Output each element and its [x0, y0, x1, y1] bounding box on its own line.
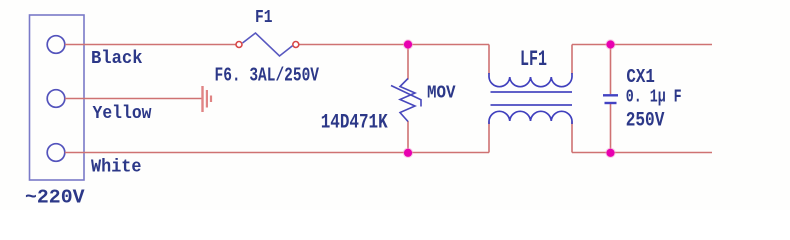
- svg-text:F1: F1: [255, 7, 273, 28]
- svg-text:LF1: LF1: [520, 47, 547, 72]
- svg-text:Yellow: Yellow: [93, 103, 152, 124]
- inductor LF1 common-mode choke: [489, 45, 572, 153]
- svg-text:14D471K: 14D471K: [321, 111, 388, 134]
- wire earth line: pin2 to ground: [65, 98, 202, 100]
- capacitor CX1 plates: [603, 95, 618, 103]
- varistor MOV body: [391, 79, 421, 122]
- node A junction dot top of MOV: [403, 39, 413, 49]
- varistor MOV vertical wire top: [407, 45, 409, 80]
- svg-text:Black: Black: [91, 48, 143, 69]
- fuse F1: [236, 33, 299, 56]
- connector J1 body: [30, 15, 85, 180]
- capacitor CX1 vertical wire bottom: [610, 104, 612, 153]
- svg-text:MOV: MOV: [427, 82, 456, 103]
- wire N line: pin3 to LF1 left: [65, 152, 489, 154]
- svg-text:F6. 3AL/250V: F6. 3AL/250V: [215, 65, 320, 87]
- svg-text:CX1: CX1: [626, 66, 655, 88]
- node B junction dot bottom of MOV: [403, 148, 413, 158]
- svg-text:~220V: ~220V: [25, 186, 85, 208]
- connector pin 1: [47, 36, 65, 54]
- connector pin 2: [47, 90, 65, 108]
- node C junction dot top of CX1: [605, 39, 615, 49]
- node D junction dot bottom of CX1: [605, 148, 615, 158]
- wire L line: fuse to LF1 left: [299, 44, 489, 46]
- wire L line: LF1 right to end: [572, 44, 712, 46]
- connector pin 3: [47, 144, 65, 162]
- capacitor CX1 vertical wire top: [610, 45, 612, 95]
- varistor MOV vertical wire bottom: [407, 121, 409, 153]
- wire N line: LF1 right to end: [572, 152, 712, 154]
- svg-text:250V: 250V: [626, 109, 665, 132]
- ground: [203, 86, 212, 112]
- wire L line: pin1 to fuse: [65, 44, 236, 46]
- svg-text:0. 1μ F: 0. 1μ F: [626, 87, 682, 108]
- svg-text:White: White: [91, 157, 142, 178]
